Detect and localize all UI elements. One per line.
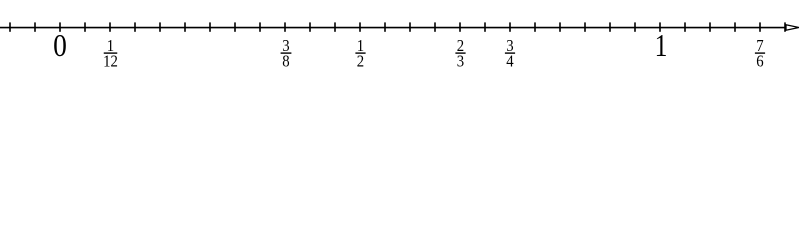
- fraction label 7/6: [755, 37, 765, 71]
- tick at 1/6 (x=160): [159, 22, 161, 31]
- fraction label 3/4: [505, 37, 515, 71]
- svg-text:1: 1: [655, 28, 668, 63]
- tick at 1/4 (x=210): [209, 22, 211, 31]
- open triangle arrowhead at right end: [786, 25, 799, 30]
- tick at 1/3 (x=260): [259, 22, 261, 31]
- fraction label 3/8: [281, 37, 292, 71]
- tick at 7/12 (x=410): [409, 22, 411, 31]
- svg-text:12: 12: [103, 53, 118, 71]
- tick at 1 (x=660): [659, 22, 661, 31]
- tick at 9/8 (x=735): [734, 22, 736, 31]
- tick at 19/24 (x=535): [534, 22, 536, 31]
- tick at 7/6 (x=760): [759, 22, 761, 31]
- svg-text:4: 4: [506, 53, 513, 71]
- tick at -1/24 (x=35): [34, 22, 36, 31]
- tick at 7/24 (x=235): [234, 22, 236, 31]
- tick at 7/8 (x=585): [584, 22, 586, 31]
- number line axis: [0, 27, 786, 29]
- tick at 23/24 (x=635): [634, 22, 636, 31]
- tick at 13/24 (x=385): [384, 22, 386, 31]
- tick at 17/24 (x=485): [484, 22, 486, 31]
- tick at 13/12 (x=710): [709, 22, 711, 31]
- svg-text:2: 2: [357, 53, 364, 71]
- tick at 5/24 (x=185): [184, 22, 186, 31]
- tick at 1/12 (x=110): [109, 22, 111, 31]
- tick at 1/2 (x=360): [359, 22, 361, 31]
- tick at 5/12 (x=310): [309, 22, 311, 31]
- tick at 1/8 (x=135): [134, 22, 136, 31]
- tick at 25/24 (x=685): [684, 22, 686, 31]
- svg-text:3: 3: [457, 53, 464, 71]
- fraction label 1/2: [355, 37, 365, 71]
- svg-text:6: 6: [756, 53, 763, 71]
- tick at 5/8 (x=435): [434, 22, 436, 31]
- tick at 2/3 (x=460): [459, 22, 461, 31]
- tick at 3/8 (x=285): [284, 22, 286, 31]
- tick at 11/24 (x=335): [334, 22, 336, 31]
- tick at 3/4 (x=510): [509, 22, 511, 31]
- tick at 1/24 (x=85): [84, 22, 86, 31]
- tick at -1/12 (x=10): [9, 22, 11, 31]
- tick at 5/6 (x=560): [559, 22, 561, 31]
- tick at 29/24 (x=785): [784, 22, 786, 31]
- svg-text:0: 0: [53, 28, 67, 63]
- tick at 0 (x=60): [59, 22, 61, 31]
- fraction label 2/3: [455, 37, 465, 71]
- tick at 11/12 (x=610): [609, 22, 611, 31]
- svg-text:8: 8: [282, 53, 289, 71]
- fraction label 1/12: [103, 37, 118, 71]
